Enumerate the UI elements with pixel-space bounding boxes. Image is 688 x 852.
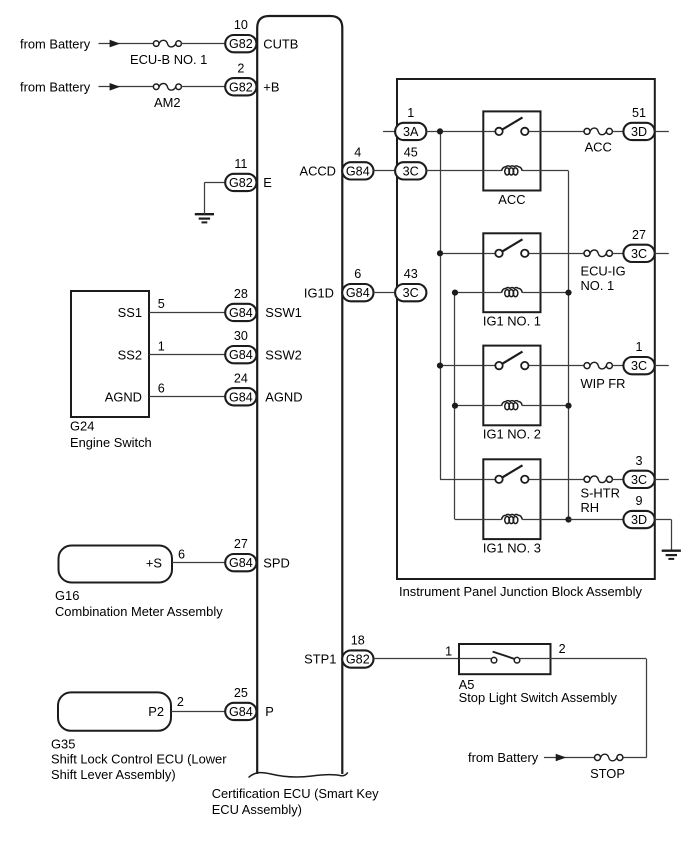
pin 24 number [234,371,248,385]
connector 3C pin 1 [623,357,654,374]
fuse label AM2 [154,95,181,110]
wire stub right of 3C pin 27 [655,253,669,255]
fuse WIP FR [584,362,612,369]
pin 2 number [237,61,244,75]
wire 3A to relay ACC switch [426,131,483,133]
svg-text:25: 25 [234,686,248,700]
svg-text:RH: RH [581,500,600,515]
wire from Battery to STOP fuse [544,757,595,759]
wire G84 to 3C (ACC coil feed) [373,170,395,172]
pin 43 number [404,267,418,281]
wire from Battery to fuse AM2 [99,86,155,88]
svg-text:IG1 NO. 1: IG1 NO. 1 [483,314,541,329]
shift lock control ECU G35 box [58,692,171,730]
wire engine switch AGND [149,396,225,398]
svg-text:3D: 3D [631,125,647,139]
svg-text:9: 9 [635,494,642,508]
svg-text:from Battery: from Battery [468,750,539,765]
shift lock name line 2 [51,767,176,782]
svg-text:18: 18 [351,634,365,648]
wire fuse to connector 3C [612,479,623,481]
svg-text:IG1D: IG1D [304,285,334,300]
connector G84 (IG1D) pin 6 [342,284,373,301]
svg-text:SS1: SS1 [118,305,142,320]
wire relay ACC to fuse [541,131,585,133]
wire stop light switch to STOP fuse [551,659,647,758]
wire fuse to connector 3C [612,365,623,367]
wire P2 to P [171,711,225,713]
wire E pin to ground [204,182,225,214]
engine switch pin 6 number [158,382,165,396]
connector 3C pin 3 [623,471,654,488]
relay IG1 NO. 1 label [483,314,541,329]
svg-text:ACCD: ACCD [299,164,336,179]
svg-text:1: 1 [445,644,452,658]
fuse ACC [584,128,612,135]
arrow from Battery (+B) [110,83,121,91]
fuse ECU-IG NO. 1 [584,250,612,257]
ECU pin label CUTB [263,36,298,51]
relay IG1 NO. 3 box [483,459,540,539]
svg-text:+S: +S [146,555,162,570]
fuse ECU-B NO. 1 [153,40,181,47]
relay ACC box [483,111,540,190]
ECU pin label ACCD [299,164,336,179]
ECU pin label SSW1 [265,305,302,320]
shift lock designator G35 [51,736,75,751]
svg-text:G35: G35 [51,736,75,751]
engine switch pin 1 number [158,339,165,353]
connector 3C pin 45 [395,162,426,179]
svg-text:G84: G84 [229,306,253,320]
wire coil bus to relay IG1 NO. 3 coil [455,519,502,521]
stop light switch pin 1 number [445,644,452,658]
svg-text:1: 1 [158,339,165,353]
relay IG1 NO. 2 box [483,346,540,426]
svg-text:2: 2 [237,61,244,75]
svg-text:+B: +B [263,80,279,95]
svg-text:SPD: SPD [263,555,290,570]
fuse S-HTR RH [584,476,612,483]
svg-text:G82: G82 [229,37,253,51]
svg-text:11: 11 [234,157,247,171]
pin 28 number [234,287,248,301]
wire stub right of 3C pin 3 [655,479,669,481]
junction dot switch bus row 2 [437,250,443,256]
Certification ECU (Smart Key ECU Assembly) body [249,16,348,778]
wire fuse to connector 3D [612,131,623,133]
relay IG1 NO. 2 switch contacts [483,352,540,370]
wire G84 to 3C (IG1 coil feed) [373,292,395,294]
relay IG1 NO. 2 coil [502,401,569,410]
svg-text:G84: G84 [229,705,253,719]
fuse label S-HTR RH [581,486,620,516]
pin 10 number [234,18,248,32]
wire fuse to connector 3C [612,253,623,255]
svg-text:G82: G82 [346,653,370,667]
pin 6 number (+S) [178,547,185,561]
svg-text:3C: 3C [631,473,647,487]
pin 11 number [234,157,247,171]
engine switch designator G24 [70,419,94,434]
svg-text:P: P [265,704,274,719]
svg-text:STOP: STOP [590,766,625,781]
svg-text:1: 1 [407,106,414,120]
svg-text:27: 27 [234,537,248,551]
connector G82 (+B) pin 2 [225,78,256,95]
stop light switch pin 2 number [559,642,566,656]
wire relay IG1 NO. 2 to fuse [541,365,585,367]
relay ACC coil [502,166,569,175]
junction dot switch bus row 3 [437,363,443,369]
arrow from Battery (CUTB) [110,40,121,48]
ECU pin label E [263,175,272,190]
pin 4 number [354,146,361,160]
fuse AM2 [153,84,181,91]
wire switch bus to relay IG1 NO. 3 [440,479,483,481]
wire G82 to stop light switch [373,658,459,660]
ground (junction block) [662,551,681,559]
Instrument Panel Junction Block Assembly label [399,584,642,599]
svg-text:Engine Switch: Engine Switch [70,435,152,450]
pin 3 number [635,454,642,468]
arrow from Battery (STOP) [556,754,567,762]
pin 30 number [234,329,248,343]
ECU pin label SPD [263,555,290,570]
combination meter G16 box [59,546,173,583]
ECU pin label IG1D [304,285,334,300]
pin 2 number (P2) [177,695,184,709]
svg-text:6: 6 [178,547,185,561]
ground (E pin) [195,214,214,222]
pin 1 number [635,340,642,354]
svg-text:ACC: ACC [498,192,525,207]
wire coil return bus (vertical) [568,171,570,520]
connector 3D pin 9 [623,511,654,528]
svg-text:3C: 3C [631,359,647,373]
connector G82 (STP1) pin 18 [342,650,373,667]
svg-text:2: 2 [559,642,566,656]
svg-text:G82: G82 [229,176,253,190]
svg-text:43: 43 [404,267,418,281]
connector 3C pin 43 [395,284,426,301]
wire 3D pin 9 to ground [655,520,672,551]
junction dot coil return row 3 [565,403,571,409]
pin 6 number [354,267,361,281]
ECU pin label AGND [265,389,302,404]
svg-text:IG1 NO. 2: IG1 NO. 2 [483,427,541,442]
svg-text:Instrument Panel Junction Bloc: Instrument Panel Junction Block Assembly [399,584,642,599]
connector G82 (E) pin 11 [225,174,256,191]
pin 18 number [351,634,365,648]
svg-text:6: 6 [158,382,165,396]
relay ACC label [498,192,525,207]
svg-text:G16: G16 [55,588,79,603]
wire switch bus to relay IG1 NO. 2 [440,365,483,367]
wire stub into 3A [383,131,395,133]
relay IG1 NO. 1 switch contacts [483,239,540,257]
connector 3D pin 51 [623,123,654,140]
ECU pin label +B [263,80,279,95]
svg-text:SS2: SS2 [118,347,142,362]
svg-text:S-HTR: S-HTR [581,486,620,501]
wire engine switch SSW2 [149,354,225,356]
svg-text:G84: G84 [346,165,370,179]
wire coil return to 3D pin 9 [569,519,624,521]
svg-text:IG1 NO. 3: IG1 NO. 3 [483,540,541,555]
fuse label ACC [585,140,612,155]
svg-text:STP1: STP1 [304,652,336,667]
svg-text:3C: 3C [403,165,419,179]
combination meter +S label [146,555,162,570]
fuse STOP [595,754,623,761]
engine switch pin 5 number [158,297,165,311]
svg-text:6: 6 [354,267,361,281]
svg-text:45: 45 [404,146,418,160]
stop light switch name [459,690,618,705]
svg-text:5: 5 [158,297,165,311]
wire 3C to relay ACC coil [426,170,501,172]
svg-text:G24: G24 [70,419,94,434]
pin 1 number [407,106,414,120]
junction dot coil bus row 2 [452,290,458,296]
shift lock name line 1 [51,751,227,766]
svg-text:from Battery: from Battery [20,80,91,95]
from Battery label (+B feed) [20,80,91,95]
wire coil feed bus (vertical) [454,293,456,520]
svg-text:ECU-B NO. 1: ECU-B NO. 1 [130,52,207,67]
svg-text:3C: 3C [631,247,647,261]
svg-text:30: 30 [234,329,248,343]
svg-text:3C: 3C [403,286,419,300]
engine switch name [70,435,152,450]
wire relay IG1 NO. 3 to fuse [541,479,585,481]
from Battery label (CUTB feed) [20,36,91,51]
svg-text:G84: G84 [229,390,253,404]
svg-text:ACC: ACC [585,140,612,155]
svg-text:AGND: AGND [105,389,142,404]
relay IG1 NO. 1 box [483,233,540,312]
svg-text:P2: P2 [148,704,164,719]
stop light switch contacts [459,652,551,663]
stop light switch designator A5 [459,677,475,692]
svg-text:NO. 1: NO. 1 [581,278,615,293]
fuse label STOP [590,766,625,781]
svg-text:E: E [263,175,272,190]
svg-text:ECU Assembly): ECU Assembly) [212,802,302,817]
fuse label ECU-IG NO. 1 [581,264,626,294]
junction dot switch bus top [437,128,443,134]
wire switch feed bus (vertical) [440,131,442,479]
relay ACC switch contacts [483,117,540,135]
svg-text:3A: 3A [403,125,419,139]
wire relay IG1 NO. 1 to fuse [541,253,585,255]
svg-text:from Battery: from Battery [20,36,91,51]
pin 9 number [635,494,642,508]
svg-text:3: 3 [635,454,642,468]
pin 51 number [632,106,646,120]
svg-text:SSW2: SSW2 [265,347,302,362]
wire +S to SPD [172,562,225,564]
engine switch G24 box [71,291,149,417]
pin 27 number [234,537,248,551]
pin 25 number [234,686,248,700]
svg-text:SSW1: SSW1 [265,305,302,320]
pin 27 number [632,228,646,242]
svg-text:2: 2 [177,695,184,709]
svg-text:28: 28 [234,287,248,301]
svg-text:ECU-IG: ECU-IG [581,264,626,279]
wire stub right of 3D pin 51 [655,131,669,133]
svg-text:4: 4 [354,146,361,160]
connector G84 (P) pin 25 [225,703,256,720]
ECU pin label SSW2 [265,347,302,362]
connector G84 (ACCD) pin 4 [342,162,373,179]
connector G84 (SSW1) pin 28 [225,304,256,321]
svg-text:CUTB: CUTB [263,36,298,51]
from Battery label (STOP feed) [468,750,539,765]
relay IG1 NO. 3 switch contacts [483,465,540,483]
svg-text:G84: G84 [346,286,370,300]
svg-text:G84: G84 [229,556,253,570]
wire fuse to connector G82 pin 2 [181,86,226,88]
engine switch labels [105,305,142,404]
pin 45 number [404,146,418,160]
shift lock P2 label [148,704,164,719]
combination meter designator G16 [55,588,79,603]
svg-text:10: 10 [234,18,248,32]
svg-text:Stop Light Switch Assembly: Stop Light Switch Assembly [459,690,618,705]
svg-text:Certification ECU (Smart Key: Certification ECU (Smart Key [212,786,379,801]
svg-text:27: 27 [632,228,646,242]
svg-text:AM2: AM2 [154,95,181,110]
wire stub right of 3C pin 1 [655,365,669,367]
svg-text:AGND: AGND [265,389,302,404]
wire fuse to connector G82 pin 10 [181,43,226,45]
fuse label WIP FR [581,376,626,391]
svg-text:51: 51 [632,106,646,120]
junction dot coil return row 4 [565,516,571,522]
junction dot coil bus row 3 [452,403,458,409]
relay IG1 NO. 3 label [483,540,541,555]
Certification ECU label [212,786,379,817]
combination meter name [55,604,223,619]
connector G82 (CUTB) pin 10 [225,35,256,52]
svg-text:3D: 3D [631,513,647,527]
wire switch bus to relay IG1 NO. 1 [440,253,483,255]
svg-text:G84: G84 [229,348,253,362]
relay IG1 NO. 2 label [483,427,541,442]
connector 3C pin 27 [623,245,654,262]
connector G84 (SPD) pin 27 [225,554,256,571]
svg-text:Shift Lock Control ECU (Lower: Shift Lock Control ECU (Lower [51,751,227,766]
Instrument Panel Junction Block Assembly box [397,79,655,579]
junction dot coil return row 2 [565,290,571,296]
wire from Battery to fuse ECU-B NO. 1 [99,43,155,45]
svg-text:24: 24 [234,371,248,385]
stop light switch A5 box [459,644,551,674]
relay IG1 NO. 3 coil [502,514,569,523]
connector 3A pin 1 [395,123,426,140]
connector G84 (AGND) pin 24 [225,388,256,405]
svg-text:Combination Meter Assembly: Combination Meter Assembly [55,604,223,619]
relay IG1 NO. 1 coil [502,288,569,297]
ECU pin label STP1 [304,652,336,667]
wire engine switch SSW1 [149,312,225,314]
svg-text:1: 1 [635,340,642,354]
svg-text:Shift Lever Assembly): Shift Lever Assembly) [51,767,176,782]
fuse label ECU-B NO. 1 [130,52,207,67]
svg-text:WIP FR: WIP FR [581,376,626,391]
svg-text:G82: G82 [229,80,253,94]
wire coil bus to relay IG1 NO. 1 coil [455,292,502,294]
connector G84 (SSW2) pin 30 [225,346,256,363]
ECU pin label P [265,704,274,719]
wire coil bus to relay IG1 NO. 2 coil [455,405,502,407]
